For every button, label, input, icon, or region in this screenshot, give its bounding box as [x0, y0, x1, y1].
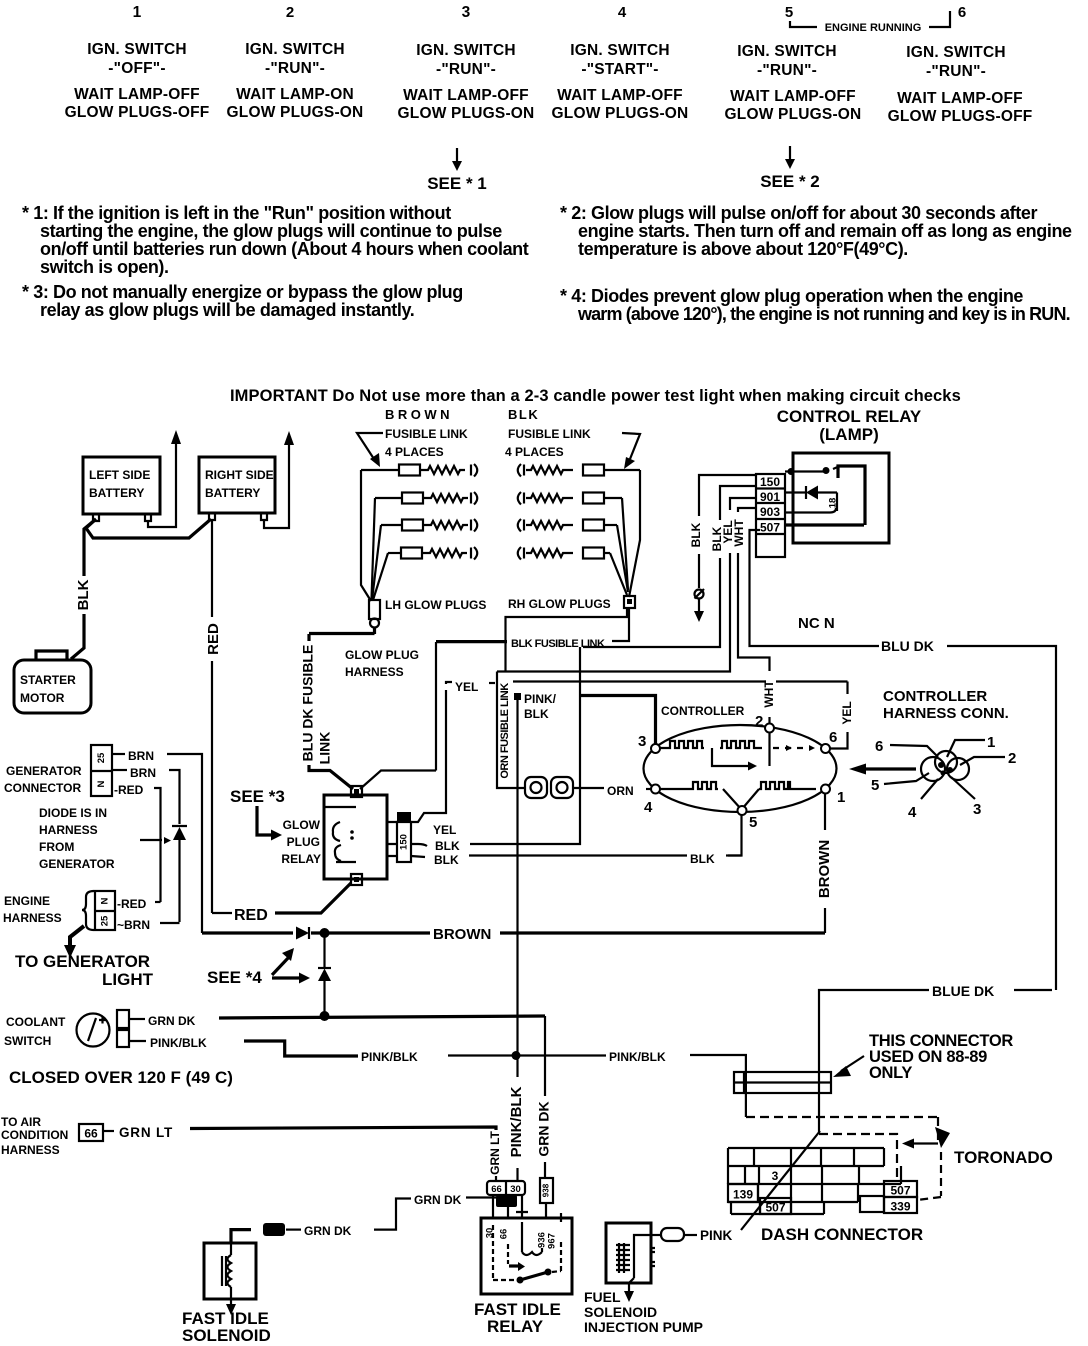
wire pin1 BROWN down	[824, 794, 826, 831]
svg-text:engine starts. Then turn off a: engine starts. Then turn off and remain …	[578, 221, 1072, 241]
YEL wire from relay to pin6 run	[411, 690, 446, 822]
svg-text:WAIT LAMP-OFF: WAIT LAMP-OFF	[730, 88, 856, 105]
diode in harness	[173, 827, 186, 840]
svg-text:* 3: Do not manually energize: * 3: Do not manually energize or bypass …	[22, 282, 463, 302]
svg-text:LINK: LINK	[317, 732, 333, 765]
upper BLK wire	[411, 844, 427, 846]
RH fusible link row 4	[518, 547, 610, 560]
svg-text:901: 901	[760, 490, 780, 504]
wire pin6 YEL	[830, 732, 848, 749]
88-89 connector bars	[734, 1072, 831, 1093]
svg-text:FUEL: FUEL	[584, 1289, 621, 1305]
svg-text:YEL: YEL	[433, 823, 456, 837]
svg-text:RED: RED	[205, 623, 222, 655]
svg-text:BLK: BLK	[508, 407, 539, 422]
control relay box	[793, 453, 889, 543]
svg-text:IGN. SWITCH: IGN. SWITCH	[906, 44, 1006, 61]
GRN LT wire	[190, 1127, 496, 1130]
svg-text:(LAMP): (LAMP)	[819, 425, 878, 444]
lower BLK wire	[411, 856, 425, 857]
svg-text:4: 4	[908, 804, 917, 821]
svg-text:967: 967	[499, 1197, 515, 1208]
66 box	[79, 1124, 103, 1141]
dashed toronado branch lower	[819, 1134, 897, 1181]
GRN DK jog wires lower	[263, 1223, 285, 1236]
svg-text:YEL: YEL	[840, 701, 854, 724]
wire PINK/BLK from coolant	[129, 1040, 146, 1042]
relay bottom bolt	[351, 874, 362, 885]
svg-text:BATTERY: BATTERY	[89, 486, 144, 500]
svg-text:DASH CONNECTOR: DASH CONNECTOR	[761, 1225, 923, 1244]
svg-text:507: 507	[760, 521, 780, 535]
diode 2	[318, 967, 331, 969]
svg-text:GENERATOR: GENERATOR	[39, 857, 115, 871]
svg-text:STARTER: STARTER	[20, 673, 76, 687]
svg-text:SEE * 2: SEE * 2	[760, 172, 820, 191]
up arrow left	[171, 430, 181, 444]
svg-text:PINK/BLK: PINK/BLK	[150, 1036, 207, 1050]
svg-text:BROWN: BROWN	[385, 407, 453, 422]
wire YEL from 903	[730, 498, 756, 510]
svg-text:ENGINE RUNNING: ENGINE RUNNING	[825, 22, 922, 34]
right side battery	[199, 457, 275, 513]
svg-text:* 4: Diodes prevent glow plug: * 4: Diodes prevent glow plug operation …	[560, 286, 1023, 306]
wire BRN 1	[112, 753, 125, 755]
ORN fusible link wire top horizontal	[497, 672, 525, 789]
fuel solenoid coil	[629, 1235, 651, 1292]
bullet connector symbol	[695, 590, 704, 599]
wire GRN DK from coolant	[129, 1018, 145, 1020]
svg-text:ORN FUSIBLE LINK: ORN FUSIBLE LINK	[499, 683, 511, 779]
svg-text:BLU DK FUSIBLE: BLU DK FUSIBLE	[300, 645, 316, 762]
wire to ORN	[573, 787, 604, 789]
dash connector grid row3	[728, 1184, 858, 1202]
svg-text:temperature is above about 120: temperature is above about 120°F(49°C).	[578, 239, 908, 259]
svg-text:* 2: Glow plugs will pulse on/: * 2: Glow plugs will pulse on/off for ab…	[560, 203, 1037, 223]
svg-text:~BRN: ~BRN	[117, 918, 150, 932]
svg-text:25: 25	[96, 752, 107, 763]
junction dot grn dk	[320, 1011, 330, 1021]
diagonal wire through grid	[741, 1131, 820, 1230]
wire WHT from 507	[738, 508, 756, 512]
svg-text:FUSIBLE LINK: FUSIBLE LINK	[508, 427, 591, 441]
loop to pin2	[712, 748, 748, 766]
pointer arrow to bars	[841, 1056, 864, 1071]
svg-text:30: 30	[510, 1184, 521, 1195]
svg-text:-RED: -RED	[114, 783, 144, 797]
svg-text:FROM: FROM	[39, 840, 74, 854]
svg-text:6: 6	[958, 4, 966, 21]
svg-text:HARNESS: HARNESS	[345, 665, 404, 679]
svg-text:2: 2	[286, 4, 294, 21]
507 cell row4	[760, 1198, 791, 1214]
left battery terminals	[93, 514, 151, 521]
svg-text:ONLY: ONLY	[869, 1064, 912, 1082]
pin 3	[651, 744, 660, 753]
relay terminal stubs	[387, 822, 397, 856]
svg-text:66: 66	[499, 1229, 510, 1240]
bottom resistor right	[759, 782, 816, 789]
svg-text:RELAY: RELAY	[281, 852, 321, 866]
wire to relay top bolt	[309, 765, 353, 789]
svg-text:1: 1	[837, 789, 845, 806]
wire pin2 vertical	[768, 732, 770, 766]
svg-text:on/off until batteries run dow: on/off until batteries run down (About 4…	[40, 239, 529, 259]
svg-text:BRN: BRN	[130, 766, 156, 780]
150 fuse label box	[397, 812, 411, 822]
wire rh connector to blk fusible link	[612, 608, 629, 641]
harness connector cluster	[921, 757, 945, 781]
relay internals	[324, 807, 356, 862]
solenoid coil	[230, 1243, 232, 1298]
LH fusible link row 2	[375, 492, 477, 505]
svg-text:339: 339	[890, 1200, 910, 1214]
relay top bolt	[351, 786, 362, 797]
svg-text:25: 25	[100, 915, 111, 926]
svg-text:5: 5	[785, 4, 793, 21]
svg-text:PINK/BLK: PINK/BLK	[609, 1050, 666, 1064]
RH fusible link row 1	[518, 464, 640, 477]
svg-text:CONTROLLER: CONTROLLER	[883, 688, 987, 705]
engine running bracket	[790, 11, 950, 27]
relay internals	[493, 1225, 516, 1280]
svg-text:3: 3	[772, 1169, 779, 1183]
wire under RH glow plugs	[506, 608, 628, 671]
fast idle solenoid wire	[231, 1230, 251, 1244]
svg-text:GLOW: GLOW	[283, 818, 321, 832]
svg-text:IMPORTANT Do Not use more than: IMPORTANT Do Not use more than a 2-3 can…	[230, 387, 961, 405]
relay connector cells 150/901/903/507	[756, 474, 785, 557]
wire right batt right terminal to up-arrow	[264, 444, 289, 528]
svg-text:GLOW PLUG: GLOW PLUG	[345, 648, 419, 662]
blu dk fusible link label bracket top	[307, 634, 310, 641]
svg-text:WAIT LAMP-OFF: WAIT LAMP-OFF	[897, 90, 1023, 107]
svg-text:GRN DK: GRN DK	[148, 1014, 196, 1028]
relay inner box	[786, 466, 865, 525]
svg-text:2: 2	[1008, 750, 1016, 767]
svg-text:IGN. SWITCH: IGN. SWITCH	[245, 41, 345, 58]
938 box	[540, 1178, 553, 1203]
svg-text:-"RUN"-: -"RUN"-	[757, 62, 817, 79]
svg-text:BLK: BLK	[690, 852, 715, 866]
left pointing arrow	[864, 767, 916, 770]
GRN DK vertical from junction	[544, 1016, 546, 1096]
svg-text:CLOSED OVER 120 F (49 C): CLOSED OVER 120 F (49 C)	[9, 1068, 233, 1087]
svg-text:IGN. SWITCH: IGN. SWITCH	[737, 43, 837, 60]
pin 6	[821, 744, 830, 753]
svg-text:SOLENOID: SOLENOID	[182, 1326, 271, 1345]
svg-text:RELAY: RELAY	[487, 1317, 544, 1336]
svg-text:NC N: NC N	[798, 615, 835, 632]
wire blk fusible link left segment	[436, 640, 507, 643]
svg-text:938: 938	[542, 1183, 551, 1197]
wire pin5 down to BLK	[728, 815, 742, 856]
svg-text:DIODE IS IN: DIODE IS IN	[39, 806, 107, 820]
wire BRN 2	[112, 769, 127, 771]
svg-text:WHT: WHT	[762, 680, 776, 708]
svg-text:3: 3	[638, 733, 646, 750]
junction dot	[320, 928, 330, 938]
diode row 901	[785, 491, 837, 493]
svg-text:-RED: -RED	[117, 897, 147, 911]
wire row 903	[785, 508, 836, 513]
svg-text:YEL: YEL	[455, 680, 478, 694]
vertical wire to grn dk junction	[323, 933, 325, 967]
svg-text:SEE * 1: SEE * 1	[427, 174, 487, 193]
svg-text:WHT: WHT	[732, 519, 746, 547]
svg-text:WAIT LAMP-ON: WAIT LAMP-ON	[236, 86, 354, 103]
dashed toronado leg to 339 cell	[917, 1152, 941, 1200]
PINK/BLK vertical wire	[516, 700, 518, 1077]
pin lines and numbers	[947, 740, 985, 757]
svg-text:CONDITION: CONDITION	[1, 1128, 68, 1142]
svg-text:-"OFF"-: -"OFF"-	[108, 60, 165, 77]
svg-text:BROWN: BROWN	[433, 926, 491, 943]
wire BLK 2 from 901	[720, 486, 756, 520]
dashed toronado branch upper	[746, 1117, 938, 1140]
to generator light arrow	[70, 926, 84, 946]
svg-text:RED: RED	[234, 907, 268, 924]
SECTIONS INSERTED BELOW	[65, 4, 1033, 193]
right 339 cell	[884, 1197, 917, 1213]
vee to pin5	[723, 789, 759, 809]
glow plug relay box	[324, 795, 387, 879]
BLUE DK wire	[1014, 989, 1052, 991]
dashes to pin6	[773, 747, 803, 749]
svg-text:IGN. SWITCH: IGN. SWITCH	[87, 41, 187, 58]
svg-text:SOLENOID: SOLENOID	[584, 1304, 657, 1320]
svg-text:BLK: BLK	[689, 522, 703, 547]
svg-text:BLK: BLK	[524, 707, 549, 721]
left side battery	[83, 457, 160, 514]
svg-text:1: 1	[133, 4, 142, 21]
svg-text:PINK/BLK: PINK/BLK	[508, 1086, 525, 1157]
wire right diagonal to relay top bolt	[360, 642, 436, 789]
svg-text:MOTOR: MOTOR	[20, 691, 65, 705]
BROWN wire	[202, 931, 293, 934]
svg-text:BLUE DK: BLUE DK	[932, 983, 994, 999]
coolant switch symbol	[77, 1014, 110, 1047]
GRN LT stub	[495, 1176, 497, 1181]
svg-text:SEE *3: SEE *3	[230, 787, 285, 806]
svg-text:903: 903	[760, 505, 780, 519]
pointer dash to diode	[140, 839, 162, 841]
svg-text:LEFT SIDE: LEFT SIDE	[89, 468, 150, 482]
wire BLK 1 from 150	[699, 475, 756, 516]
svg-text:WAIT LAMP-OFF: WAIT LAMP-OFF	[557, 87, 683, 104]
wire RED 1	[112, 787, 113, 789]
svg-text:FUSIBLE LINK: FUSIBLE LINK	[385, 427, 468, 441]
starter motor	[14, 660, 91, 713]
139 cell	[728, 1184, 758, 1202]
relay internals: contact row 150	[785, 470, 827, 472]
svg-text:RIGHT SIDE: RIGHT SIDE	[205, 468, 274, 482]
wire to pink bullet	[651, 1234, 661, 1236]
svg-text:GLOW PLUGS-OFF: GLOW PLUGS-OFF	[888, 108, 1033, 125]
bullet connector pair	[525, 777, 547, 798]
svg-text:4: 4	[644, 799, 653, 816]
dash connector grid row2	[728, 1166, 901, 1184]
svg-text:SWITCH: SWITCH	[4, 1034, 51, 1048]
svg-text:HARNESS: HARNESS	[3, 911, 62, 925]
svg-text:-"RUN"-: -"RUN"-	[926, 63, 986, 80]
svg-text:GLOW PLUGS-ON: GLOW PLUGS-ON	[725, 106, 862, 123]
svg-text:WAIT LAMP-OFF: WAIT LAMP-OFF	[74, 86, 200, 103]
RH glow plug connector	[624, 596, 635, 608]
svg-text:RH GLOW PLUGS: RH GLOW PLUGS	[508, 597, 611, 611]
svg-text:3: 3	[973, 801, 981, 818]
fast idle relay box	[481, 1218, 572, 1294]
top resistor left	[659, 741, 704, 748]
fuel solenoid box	[606, 1223, 651, 1283]
svg-text:switch is open).: switch is open).	[40, 257, 169, 277]
blk link pointer arrow	[622, 433, 640, 459]
svg-text:HARNESS CONN.: HARNESS CONN.	[883, 705, 1009, 722]
see 2 arrow	[789, 146, 791, 160]
svg-text:warm (above 120°), the engine: warm (above 120°), the engine is not run…	[577, 304, 1070, 324]
svg-text:GLOW PLUGS-ON: GLOW PLUGS-ON	[398, 105, 535, 122]
svg-text:TO AIR: TO AIR	[1, 1115, 41, 1129]
right 507 cell	[884, 1181, 917, 1197]
row4 cells	[731, 1202, 824, 1214]
svg-text:-"START"-: -"START"-	[581, 61, 658, 78]
svg-text:PINK: PINK	[700, 1228, 733, 1243]
svg-text:BLK FUSIBLE LINK: BLK FUSIBLE LINK	[511, 638, 605, 650]
engine harness brace	[82, 891, 94, 930]
967 box under	[496, 1195, 517, 1207]
svg-text:507: 507	[890, 1184, 910, 1198]
svg-text:TORONADO: TORONADO	[954, 1148, 1053, 1167]
svg-text:PINK/: PINK/	[524, 692, 557, 706]
blue dk vertical below bars	[818, 1093, 820, 1134]
controller ellipse	[644, 725, 837, 812]
PINK/BLK label with square dot	[514, 693, 521, 700]
diode 1 on brown wire	[296, 927, 309, 940]
svg-text:COOLANT: COOLANT	[6, 1015, 66, 1029]
svg-text:LIGHT: LIGHT	[102, 970, 154, 989]
wire to pin3	[580, 696, 656, 745]
LH fusible link row 4	[388, 547, 477, 560]
svg-text:N: N	[100, 897, 111, 904]
see 1 arrow	[456, 148, 458, 162]
svg-text:18: 18	[828, 498, 839, 509]
svg-text:4 PLACES: 4 PLACES	[385, 445, 444, 459]
svg-text:INJECTION PUMP: INJECTION PUMP	[584, 1319, 703, 1335]
RED wire to relay bottom	[212, 912, 232, 914]
svg-text:CONNECTOR: CONNECTOR	[4, 781, 81, 795]
svg-text:967: 967	[266, 1225, 282, 1236]
pin 5	[738, 806, 747, 815]
svg-text:IGN. SWITCH: IGN. SWITCH	[416, 42, 516, 59]
generator connector box	[91, 745, 112, 796]
cell left of 339	[860, 1196, 884, 1212]
svg-text:BRN: BRN	[128, 749, 154, 763]
svg-text:6: 6	[875, 738, 883, 755]
svg-text:1: 1	[987, 734, 995, 751]
svg-text:66: 66	[84, 1127, 98, 1141]
svg-text:PINK/BLK: PINK/BLK	[361, 1050, 418, 1064]
svg-text:150: 150	[760, 475, 780, 489]
svg-text:GLOW PLUGS-ON: GLOW PLUGS-ON	[552, 105, 689, 122]
RH fusible link row 3	[518, 519, 617, 532]
wire 507 bottom to BLU DK	[750, 530, 880, 646]
svg-text:139: 139	[733, 1188, 753, 1202]
svg-text:HARNESS: HARNESS	[1, 1143, 60, 1157]
svg-text:WAIT LAMP-OFF: WAIT LAMP-OFF	[403, 87, 529, 104]
YEL long horizontal wire	[513, 680, 848, 682]
svg-text:HARNESS: HARNESS	[39, 823, 98, 837]
svg-text:TO GENERATOR: TO GENERATOR	[15, 952, 150, 971]
up arrow right	[284, 431, 294, 445]
svg-text:GRN LT: GRN LT	[488, 1130, 502, 1174]
svg-text:BLK: BLK	[75, 579, 92, 610]
svg-text:66: 66	[491, 1184, 502, 1195]
RH bus fan	[629, 470, 640, 597]
svg-text:967: 967	[547, 1233, 558, 1249]
svg-text:GRN DK: GRN DK	[414, 1193, 462, 1207]
inter-battery wire	[86, 519, 211, 538]
svg-text:-"RUN"-: -"RUN"-	[265, 60, 325, 77]
coolant connector cells	[117, 1010, 129, 1028]
66 30 box	[487, 1181, 525, 1195]
svg-text:2: 2	[755, 713, 763, 730]
svg-text:N: N	[96, 780, 107, 787]
stubs to relay	[493, 1195, 561, 1222]
svg-text:ENGINE: ENGINE	[4, 894, 50, 908]
svg-text:BLK: BLK	[434, 853, 459, 867]
svg-text:ORN: ORN	[607, 784, 634, 798]
svg-text:SEE *4: SEE *4	[207, 968, 262, 987]
svg-text:GRN DK: GRN DK	[536, 1101, 552, 1156]
svg-text:GLOW PLUGS-OFF: GLOW PLUGS-OFF	[65, 104, 210, 121]
svg-text:GENERATOR: GENERATOR	[6, 764, 82, 778]
svg-text:3: 3	[462, 4, 471, 21]
svg-text:BLU DK: BLU DK	[881, 638, 934, 654]
svg-text:GLOW PLUGS-ON: GLOW PLUGS-ON	[227, 104, 364, 121]
LH fusible link row 1	[361, 464, 477, 477]
svg-text:LH GLOW PLUGS: LH GLOW PLUGS	[385, 598, 486, 612]
svg-text:5: 5	[871, 777, 879, 794]
bottom resistor left	[659, 782, 718, 789]
svg-text:BLK: BLK	[435, 839, 460, 853]
LH glow plug connector	[369, 600, 380, 619]
pin 2	[765, 724, 774, 733]
wire left batt right terminal to up-arrow	[148, 443, 176, 527]
right battery terminals	[209, 513, 267, 520]
LH bus fan	[361, 470, 371, 601]
svg-text:CONTROL RELAY: CONTROL RELAY	[777, 407, 922, 426]
pin 4	[651, 785, 660, 794]
svg-text:IGN. SWITCH: IGN. SWITCH	[570, 42, 670, 59]
wire RED right battery down	[211, 521, 213, 617]
svg-text:4 PLACES: 4 PLACES	[505, 445, 564, 459]
wire BLU DK right segment	[947, 646, 1056, 990]
top resistor right	[720, 741, 762, 748]
svg-text:BROWN: BROWN	[816, 840, 833, 898]
svg-text:6: 6	[829, 729, 837, 746]
svg-text:5: 5	[749, 814, 757, 831]
engine harness connector box	[95, 891, 115, 930]
svg-text:507: 507	[765, 1201, 785, 1215]
RH fusible link row 2	[518, 492, 622, 505]
svg-text:GRN DK: GRN DK	[304, 1224, 352, 1238]
svg-text:150: 150	[399, 834, 410, 850]
pin 1	[821, 785, 830, 794]
svg-text:PLUG: PLUG	[287, 835, 320, 849]
svg-text:4: 4	[618, 4, 627, 21]
coil 18	[836, 493, 838, 512]
svg-text:starting the engine, the glow: starting the engine, the glow plugs will…	[40, 221, 502, 241]
